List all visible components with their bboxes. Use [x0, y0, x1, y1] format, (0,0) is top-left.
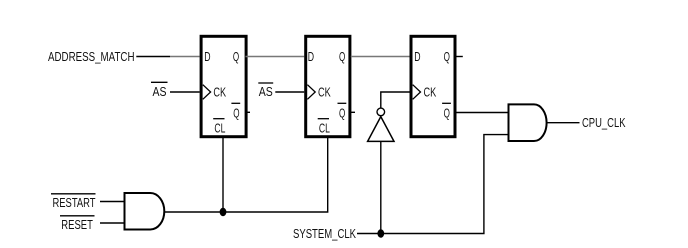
wire U3.Q stub [457, 56, 463, 58]
wire AS to U1.CK [170, 91, 200, 93]
wire inverter output to U3.CK [381, 92, 410, 108]
U1 clock triangle [203, 85, 211, 100]
wire U2.Qbar stub [351, 111, 355, 113]
svg-text:Q: Q [444, 105, 450, 120]
svg-text:D: D [204, 49, 210, 64]
inverter triangle [368, 117, 394, 142]
svg-text:CPU_CLK: CPU_CLK [582, 115, 626, 130]
wire U3.Qbar to G2 input [457, 112, 509, 114]
svg-text:ADDRESS_MATCH: ADDRESS_MATCH [48, 49, 135, 64]
node RESET label (with overline) [60, 216, 95, 232]
svg-text:CK: CK [424, 85, 437, 100]
node AS label (first, with overline) [151, 82, 168, 99]
svg-text:Q: Q [233, 105, 239, 120]
svg-text:SYSTEM_CLK: SYSTEM_CLK [293, 226, 356, 241]
svg-text:Q: Q [339, 105, 345, 120]
wire U2.Q to U3.D [351, 56, 410, 58]
U1 pin label CL (clear, with overline) [213, 119, 225, 136]
junction dot at U1.CL / G1 output [220, 208, 227, 216]
U1 pin label Qbar [231, 103, 240, 120]
junction dot at SYSTEM_CLK / inverter input [377, 229, 384, 237]
AND gate G2 [509, 104, 547, 141]
flip-flop U3 body [411, 36, 455, 136]
svg-text:CK: CK [318, 85, 331, 100]
U3 clock triangle [413, 85, 421, 100]
flip-flop U1 body [201, 36, 246, 136]
svg-text:D: D [414, 49, 420, 64]
U2 pin label Qbar [338, 103, 347, 120]
wire RESTART to G1 input [100, 201, 125, 203]
svg-text:Q: Q [444, 49, 450, 64]
svg-text:Q: Q [233, 49, 239, 64]
wire ADDRESS_MATCH to U1.D (gray segment) [170, 56, 200, 58]
AND gate G1 [125, 193, 165, 230]
svg-text:RESTART: RESTART [53, 195, 96, 210]
svg-text:AS: AS [259, 84, 273, 99]
wire U1.Q to U2.D [246, 56, 305, 58]
wire U1.Qbar stub [246, 111, 251, 113]
wire G1 output to U2.CL [165, 137, 328, 213]
wire AS to U2.CK [275, 91, 304, 93]
svg-text:AS: AS [153, 84, 167, 99]
U2 pin label CL (clear, with overline) [318, 119, 330, 136]
node RESTART label (with overline) [51, 194, 96, 210]
U3 pin label Qbar [442, 103, 451, 120]
U2 clock triangle [307, 85, 315, 100]
svg-text:Q: Q [339, 49, 345, 64]
wire SYSTEM_CLK to G2 input [357, 135, 509, 234]
wire inverter input vertical [380, 141, 382, 233]
svg-text:CK: CK [213, 85, 226, 100]
svg-text:CL: CL [214, 120, 225, 135]
svg-text:RESET: RESET [61, 217, 93, 232]
wire RESET to G1 input [100, 222, 125, 224]
svg-text:D: D [308, 49, 314, 64]
node AS label (second, with overline) [258, 83, 273, 99]
wire G2 output [547, 122, 580, 124]
wire ADDRESS_MATCH to U1.D (black segment) [136, 56, 170, 58]
wire U1.CL vertical [222, 137, 224, 213]
inverter bubble [377, 108, 385, 116]
svg-text:CL: CL [319, 120, 330, 135]
flip-flop U2 body [306, 36, 350, 136]
